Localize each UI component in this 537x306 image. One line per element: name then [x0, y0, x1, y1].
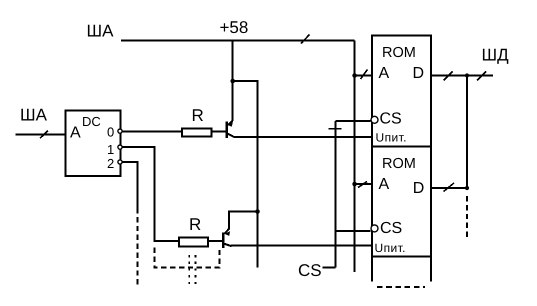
wire CS to ROM2 CS pin	[336, 230, 371, 232]
resistor R1	[182, 128, 211, 136]
svg-text:R: R	[189, 215, 201, 234]
wire R2 to Q2 base	[208, 240, 222, 242]
wire Q1 collector to Uпит1	[234, 136, 372, 138]
svg-text:A: A	[379, 176, 390, 193]
svg-text:0: 0	[107, 125, 114, 140]
bus slash D2	[444, 183, 455, 192]
svg-text:A: A	[379, 65, 390, 82]
svg-text:CS: CS	[380, 111, 402, 128]
svg-text:ROM: ROM	[382, 156, 416, 172]
wire +5V vertical drop to Q1 emitter	[232, 41, 234, 121]
svg-text:2: 2	[107, 156, 114, 171]
svg-text:Uпит.: Uпит.	[375, 241, 406, 255]
svg-text:A: A	[70, 125, 81, 142]
bus slash on ША input	[40, 131, 48, 139]
svg-text:CS: CS	[380, 220, 402, 237]
svg-text:Uпит.: Uпит.	[376, 131, 407, 145]
svg-text:ROM: ROM	[382, 45, 416, 61]
svg-text:1: 1	[107, 142, 114, 157]
node junction A1	[352, 73, 357, 78]
node junction +5V branch	[230, 79, 235, 84]
bus slash on A1	[361, 70, 368, 80]
bus slash on ША rail	[301, 35, 310, 44]
wire Q2 collector to Uпит2	[231, 245, 372, 247]
svg-text:D: D	[413, 180, 425, 197]
wire ША input to decoder	[16, 134, 66, 136]
wire DC out0 to R1	[123, 130, 183, 132]
ROM U1 box	[372, 36, 431, 147]
wire ROM1 D output to ШД	[431, 75, 493, 77]
node junction Q2 emitter branch	[255, 209, 260, 214]
svg-text:DC: DC	[82, 114, 101, 129]
wire CS bus vertical	[335, 121, 337, 268]
wire +5V branch to Q2	[233, 81, 258, 268]
wire dashed stage-continuation U	[155, 248, 220, 268]
svg-text:ША: ША	[87, 22, 115, 41]
ROM column extension sides	[371, 257, 373, 282]
wire ROM2 D output	[431, 187, 467, 189]
wire DC out2 down	[123, 162, 138, 208]
wire dotted ellipsis below R2	[188, 255, 190, 284]
svg-text:CS: CS	[298, 261, 322, 280]
pin bubble out 1	[118, 145, 122, 149]
pin bubble out 2	[118, 160, 122, 164]
wire ША bus vertical	[354, 41, 356, 272]
ROM U2 box	[372, 147, 431, 257]
bus slash on A2	[358, 182, 367, 188]
svg-text:D: D	[413, 65, 425, 82]
wire DC out1 to R2	[123, 147, 180, 241]
wire Q2 emitter feed	[229, 212, 258, 230]
pin bubble out 0	[118, 129, 122, 133]
svg-text:R: R	[192, 106, 204, 125]
svg-text:ШД: ШД	[482, 46, 510, 65]
svg-text:+58: +58	[220, 18, 249, 37]
node junction ШД2	[465, 186, 469, 190]
svg-text:ША: ША	[20, 106, 48, 125]
bus tick on CS vertical	[329, 128, 342, 130]
wire to ROM2 A input	[355, 183, 372, 185]
wire Q1 base	[211, 130, 225, 132]
node junction ШД1	[465, 73, 469, 77]
wire to ROM1 A input	[355, 75, 372, 77]
transistor Q1	[227, 121, 234, 138]
bus slash D1 b	[477, 72, 486, 81]
pin bubble CS1	[371, 116, 378, 123]
node junction A2	[352, 182, 357, 187]
wire ША top rail	[121, 40, 355, 42]
transistor Q2	[223, 229, 231, 248]
wire CS label stub	[323, 267, 336, 269]
resistor R2	[179, 238, 208, 247]
wire dashed ШД continuation	[466, 196, 468, 238]
pin bubble CS2	[371, 225, 378, 232]
wire CS to ROM1 CS pin	[336, 120, 371, 122]
wire ШД bus vertical	[466, 76, 468, 189]
ROM column dashed bottom	[377, 286, 425, 288]
decoder DC box	[66, 111, 121, 176]
bus slash D1 a	[444, 72, 453, 81]
wire dashed continuation of out2	[136, 208, 138, 285]
